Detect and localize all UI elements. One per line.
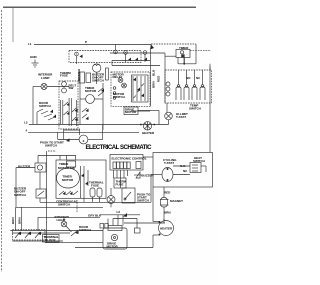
svg-text:SWITCH: SWITCH (92, 79, 104, 83)
svg-text:SWITCH: SWITCH (137, 199, 149, 203)
svg-text:BUZZER: BUZZER (18, 165, 31, 169)
svg-text:4: 4 (26, 129, 28, 133)
svg-text:HEATER: HEATER (160, 227, 173, 231)
svg-text:L1: L1 (28, 42, 32, 46)
svg-text:MOTOR: MOTOR (125, 110, 137, 114)
svg-text:SWITCH: SWITCH (189, 107, 201, 111)
svg-text:SWITCH: SWITCH (39, 104, 51, 108)
svg-text:BLU: BLU (152, 70, 156, 76)
svg-text:MAGNET: MAGNET (170, 199, 183, 203)
svg-text:T-STAT: T-STAT (164, 161, 174, 165)
svg-text:FUSE: FUSE (60, 74, 68, 78)
svg-text:NC: NC (196, 76, 201, 80)
svg-text:NC: NC (183, 169, 188, 173)
svg-text:MOTOR: MOTOR (107, 245, 119, 249)
svg-text:SWITCH: SWITCH (79, 228, 91, 232)
svg-text:FUSE: FUSE (91, 183, 99, 187)
svg-text:P: P (85, 40, 87, 44)
svg-text:RED: RED (157, 75, 161, 82)
svg-text:GND: GND (30, 55, 38, 59)
svg-text:BLOCK: BLOCK (45, 238, 56, 242)
svg-text:BRN: BRN (152, 82, 156, 89)
svg-text:GRY: GRY (88, 214, 94, 218)
svg-text:SWITCH: SWITCH (58, 202, 70, 206)
svg-text:T-STAT: T-STAT (176, 115, 186, 119)
svg-text:RELAY: RELAY (113, 75, 123, 79)
svg-text:SW: SW (69, 86, 74, 90)
svg-text:SWITCH: SWITCH (14, 193, 26, 197)
svg-text:ELECTRONIC CONTROL: ELECTRONIC CONTROL (112, 157, 147, 161)
svg-text:L2: L2 (24, 121, 28, 125)
svg-text:RED: RED (164, 191, 171, 195)
svg-text:MOTOR: MOTOR (85, 89, 97, 93)
svg-text:BRN: BRN (11, 218, 15, 225)
svg-text:HEATER: HEATER (142, 131, 155, 135)
svg-text:BUZZER: BUZZER (77, 68, 81, 81)
svg-text:BRN: BRN (164, 211, 171, 215)
svg-text:BRN: BRN (17, 218, 21, 225)
svg-text:BUZZER: BUZZER (142, 174, 155, 178)
svg-text:BLK: BLK (95, 214, 102, 218)
svg-text:SWITCH: SWITCH (45, 144, 57, 148)
svg-text:MOTOR: MOTOR (62, 178, 74, 182)
svg-text:SWITCH: SWITCH (113, 95, 125, 99)
svg-text:ELECTRICAL SCHEMATIC: ELECTRICAL SCHEMATIC (86, 145, 153, 151)
svg-text:L2: L2 (117, 210, 121, 214)
svg-text:LAMP: LAMP (41, 76, 50, 80)
svg-text:FUSE: FUSE (116, 182, 124, 186)
